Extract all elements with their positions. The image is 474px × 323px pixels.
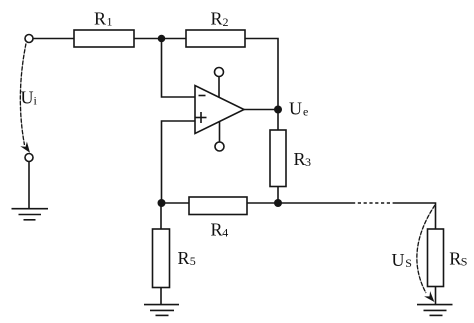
svg-text:S: S (461, 255, 468, 269)
resistor R1 (74, 30, 134, 47)
svg-text:R: R (211, 219, 223, 239)
wire (277, 187, 279, 204)
svg-text:R: R (94, 9, 106, 29)
svg-text:3: 3 (305, 155, 311, 169)
label Us (392, 250, 412, 270)
wire (162, 202, 190, 204)
label Ui (21, 87, 38, 107)
wire (162, 121, 196, 203)
wire (160, 203, 162, 229)
power pin V- (219, 122, 221, 142)
svg-text:1: 1 (107, 15, 113, 29)
wire (277, 110, 279, 131)
wire (162, 39, 196, 98)
svg-text:e: e (303, 105, 308, 119)
label RS (449, 248, 467, 268)
svg-text:R: R (211, 9, 223, 29)
wire (134, 38, 186, 40)
resistor RS (428, 229, 444, 287)
ground (RS) (417, 305, 453, 316)
svg-text:S: S (405, 256, 412, 270)
wire (28, 162, 30, 209)
source arrow Us (417, 205, 435, 293)
label R2 (211, 9, 229, 30)
wire (244, 109, 278, 111)
svg-text:5: 5 (190, 254, 196, 268)
svg-text:4: 4 (222, 226, 228, 240)
label R3 (294, 149, 312, 169)
label R1 (94, 9, 113, 29)
wire (245, 39, 278, 110)
power pin V+ (218, 77, 220, 98)
node junction A (158, 35, 166, 43)
svg-text:R: R (294, 149, 306, 169)
label R5 (178, 248, 196, 268)
svg-text:U: U (392, 250, 405, 270)
svg-text:U: U (21, 87, 34, 107)
node C (158, 199, 166, 207)
terminal input bottom-left (25, 154, 33, 162)
wire dashed (352, 202, 393, 204)
terminal input top-left (25, 35, 33, 43)
op-amp U1 (195, 86, 244, 134)
node Ue (274, 106, 282, 114)
wire (247, 202, 278, 204)
resistor R4 (189, 197, 247, 215)
wire (435, 287, 437, 305)
label Ue (289, 99, 308, 119)
ground (input) (12, 209, 49, 220)
node B (274, 199, 282, 207)
source arrow Ui (20, 44, 26, 146)
label R4 (211, 219, 229, 239)
resistor R2 (186, 30, 245, 47)
wire (393, 203, 436, 229)
svg-text:i: i (34, 94, 38, 108)
wire (278, 202, 352, 204)
resistor R3 (270, 130, 286, 187)
wire (33, 38, 74, 40)
resistor R5 (153, 229, 170, 288)
svg-text:R: R (178, 248, 190, 268)
ground (R5) (144, 305, 179, 316)
svg-text:R: R (449, 248, 461, 268)
svg-text:U: U (289, 99, 302, 119)
svg-text:2: 2 (223, 15, 229, 29)
wire (160, 288, 162, 305)
